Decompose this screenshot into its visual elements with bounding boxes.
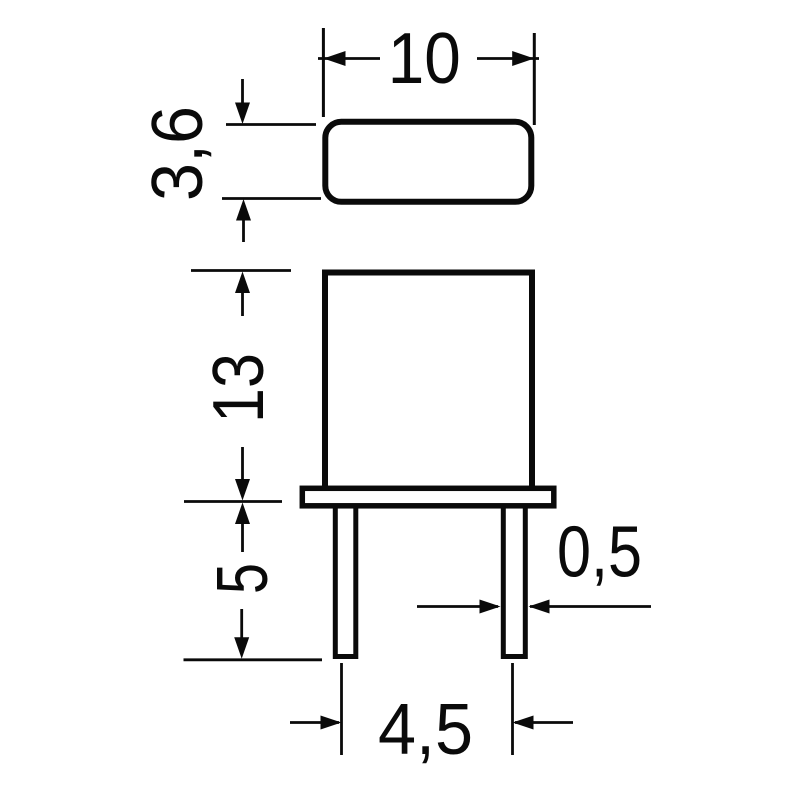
dimension 10 extension line right: [533, 33, 536, 125]
front view case body: [325, 273, 532, 493]
dimension 3,6 top line: [226, 123, 316, 126]
dimension 13 arrow up at top: [235, 272, 250, 317]
dimension 4,5 extension line left: [340, 663, 343, 755]
dimension 10 arrowhead left: [324, 51, 346, 66]
dimension 4,5 extension line right: [511, 663, 514, 755]
svg-text:3,6: 3,6: [138, 106, 218, 201]
dimension 13 label (rotated): [199, 353, 279, 423]
dimension 4,5 label: [378, 690, 473, 770]
dimension 10 extension line left: [322, 28, 325, 117]
dimension 13 / 5 shared line: [184, 500, 282, 503]
dimension 0,5 line right segment with arrow: [529, 600, 652, 614]
svg-text:0,5: 0,5: [557, 512, 642, 592]
dimension 0,5 line left segment with arrow: [417, 600, 501, 614]
dimension 3,6 bottom line: [222, 197, 321, 200]
dimension 10 line right segment: [477, 57, 539, 60]
dimension 10 arrowhead right: [512, 51, 534, 66]
dimension 4,5 arrow right (outside pointing left): [513, 716, 574, 730]
dimension 3,6 arrow up (below bottom line): [236, 199, 251, 242]
svg-text:4,5: 4,5: [378, 690, 473, 770]
left lead: [335, 500, 356, 657]
dimension 3,6 label (rotated): [138, 106, 218, 201]
dimension 5 bottom line: [184, 658, 323, 661]
dimension 4,5 arrow left (outside pointing right): [290, 716, 342, 730]
dimension 5 arrow down at bottom: [234, 609, 249, 659]
svg-text:13: 13: [199, 353, 279, 423]
dimension 10 line left segment: [318, 57, 380, 60]
right lead: [503, 500, 525, 657]
dimension 5 label (rotated): [203, 563, 283, 594]
svg-text:5: 5: [203, 563, 283, 594]
dimension 10 label: [388, 19, 461, 99]
base plate: [302, 488, 554, 506]
dimension 3,6 arrow down (above top line): [235, 79, 250, 124]
dimension 13 top line: [191, 269, 291, 272]
top view case outline: [325, 122, 531, 202]
svg-text:10: 10: [388, 19, 461, 99]
dimension 13 arrow down at bottom: [235, 447, 250, 501]
dimension 5 arrow up at top: [235, 503, 250, 553]
dimension 0,5 label: [557, 512, 642, 592]
